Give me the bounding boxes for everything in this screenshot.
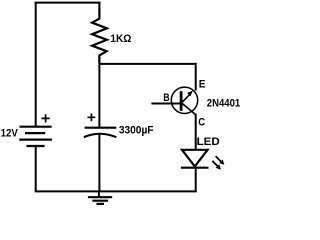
capacitor C1 top plate	[85, 127, 117, 129]
svg-text:C: C	[198, 117, 205, 129]
svg-text:E: E	[199, 78, 206, 90]
resistor R1	[92, 2, 107, 64]
svg-text:LED: LED	[197, 136, 220, 148]
LED D1 cathode bar	[181, 167, 209, 169]
battery B1 short plate 2	[25, 132, 45, 134]
transistor Q1 base bar	[180, 91, 183, 111]
wire: LED cathode lead to bottom rail	[195, 168, 197, 192]
wire: mid rail capacitor to bottom	[98, 134, 100, 192]
battery B1 plate long 3	[19, 139, 52, 141]
transistor Q1 emitter with arrow	[182, 91, 193, 103]
transistor Q1 collector diagonal	[182, 103, 196, 115]
wire: battery negative lead down	[35, 146, 37, 191]
wire: base lead	[151, 103, 180, 105]
svg-text:1KΩ: 1KΩ	[110, 33, 131, 45]
wire: bottom rail	[35, 190, 197, 192]
ground	[88, 191, 112, 204]
wire: mid rail resistor to capacitor	[98, 55, 100, 128]
wire: top rail	[35, 2, 101, 4]
LED light arrow 1	[216, 156, 225, 165]
wire: mid horizontal rail to transistor emitter	[99, 63, 196, 65]
LED light arrow 2	[212, 161, 221, 170]
battery B1 short plate 4	[27, 145, 45, 147]
battery plus sign	[42, 114, 50, 122]
battery B1 12V plate long top	[20, 126, 52, 128]
capacitor C1 curved plate	[84, 134, 117, 138]
wire: collector lead down to LED	[195, 114, 197, 151]
svg-text:2N4401: 2N4401	[207, 97, 241, 109]
LED D1 triangle	[182, 150, 208, 167]
capacitor plus sign	[88, 114, 96, 122]
wire: emitter lead down from mid rail	[195, 63, 197, 91]
transistor Q1 body circle	[171, 87, 197, 113]
svg-text:B: B	[163, 92, 169, 104]
svg-text:12V: 12V	[1, 128, 19, 140]
svg-text:3300µF: 3300µF	[119, 124, 154, 136]
wire: left rail from top to battery +	[35, 2, 37, 127]
